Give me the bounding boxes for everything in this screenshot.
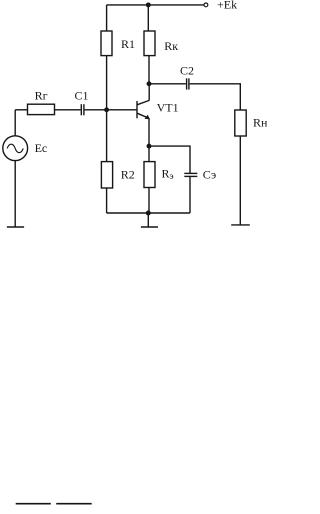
resistor Re xyxy=(144,162,155,188)
capacitor C2 xyxy=(187,78,189,89)
svg-text:Rг: Rг xyxy=(35,89,48,103)
svg-text:C2: C2 xyxy=(180,63,194,77)
wire ground stem xyxy=(147,213,149,227)
capacitor Ce xyxy=(184,173,197,176)
wire Ce bottom lead xyxy=(189,177,191,213)
wire R1 top lead xyxy=(106,5,108,31)
capacitor C1 xyxy=(81,104,84,115)
wire source top lead xyxy=(14,110,16,136)
ground load xyxy=(231,224,250,226)
underline segment 1 xyxy=(16,503,51,505)
wire C2 to output corner xyxy=(190,84,241,110)
wire emitter node to Ce xyxy=(149,146,190,173)
svg-text:R2: R2 xyxy=(121,168,135,182)
svg-text:+Ek: +Ek xyxy=(217,0,237,12)
resistor Rg xyxy=(28,104,55,114)
ground source xyxy=(7,226,24,228)
svg-text:R1: R1 xyxy=(121,37,135,51)
wire bottom rail xyxy=(107,212,190,214)
node collector junction xyxy=(147,81,152,86)
svg-text:Сэ: Сэ xyxy=(203,167,216,181)
wire base lead xyxy=(107,109,137,111)
svg-text:Eс: Eс xyxy=(35,141,48,155)
source Ec xyxy=(3,136,28,161)
wire R1 bottom to R2 top (divider line) xyxy=(106,56,108,162)
resistor R2 xyxy=(101,162,112,188)
underline segment 2 xyxy=(56,503,91,505)
wire collector node to C2 xyxy=(149,83,186,85)
wire Rn bottom lead xyxy=(239,136,241,225)
wire Rg to C1 xyxy=(55,109,81,111)
terminal +Ek xyxy=(204,3,208,7)
wire source bottom lead xyxy=(14,161,16,227)
svg-text:Rн: Rн xyxy=(253,116,267,130)
wire source to Rg xyxy=(15,109,27,111)
transistor VT1 xyxy=(137,100,150,119)
wire R2 bottom lead xyxy=(106,188,108,213)
resistor Rk xyxy=(144,31,155,56)
wire collector lead xyxy=(148,84,150,101)
wire emitter lead xyxy=(148,118,150,146)
svg-text:VT1: VT1 xyxy=(157,101,179,115)
wire top supply rail xyxy=(107,4,204,6)
wire emitter node to Re xyxy=(148,146,150,162)
wire Rk bottom lead xyxy=(148,56,150,84)
node bottom rail junction xyxy=(146,211,151,216)
ground common xyxy=(141,226,158,228)
node top rail junction xyxy=(146,2,151,7)
resistor Rn xyxy=(235,110,246,136)
svg-text:Rэ: Rэ xyxy=(162,167,174,182)
wire Re bottom lead xyxy=(148,188,150,214)
resistor R1 xyxy=(101,31,112,56)
svg-text:Rк: Rк xyxy=(164,39,178,53)
wire Rk top lead xyxy=(147,5,149,31)
wire C1 to base node xyxy=(85,109,107,111)
node emitter junction xyxy=(147,144,152,149)
svg-text:C1: C1 xyxy=(75,89,89,103)
node base junction xyxy=(104,107,109,112)
